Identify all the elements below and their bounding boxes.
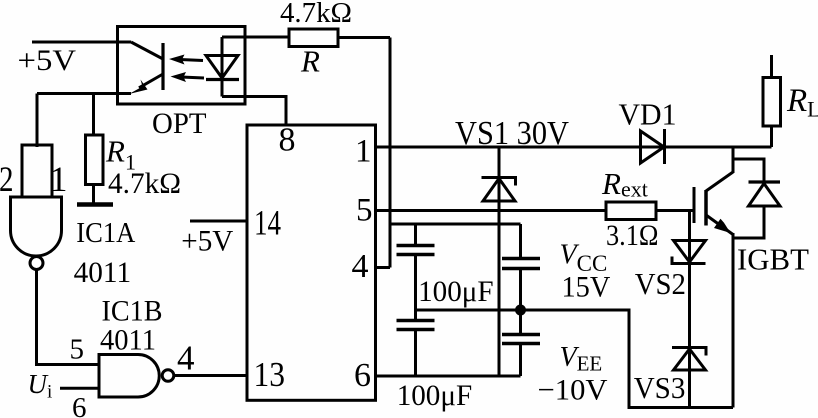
wire R to vertical bus: [338, 36, 390, 39]
zener VS1 cathode bar: [482, 178, 516, 186]
wire pin 5 rail to Rext: [375, 209, 606, 212]
svg-text:5: 5: [356, 193, 373, 229]
capacitor C2 100uF plates: [397, 319, 435, 322]
wire cap branch 1 bottom: [414, 330, 417, 377]
wire RL to rail: [770, 126, 773, 147]
wire LED anode to resistor R: [222, 36, 289, 39]
light arrow lower: [181, 77, 204, 78]
junction dot: [515, 305, 526, 316]
svg-text:2: 2: [0, 159, 14, 199]
IGBT body bar: [704, 190, 708, 226]
zener VS3 cathode bar: [672, 348, 706, 356]
zener VS2 cathode bar: [672, 257, 706, 264]
LED cathode bar: [206, 78, 239, 81]
resistor Rext 3.1ohm: [606, 202, 656, 220]
svg-text:4.7kΩ: 4.7kΩ: [108, 167, 181, 200]
capacitor branch 2 upper wire: [519, 224, 522, 259]
NAND gate IC1B body: [99, 355, 159, 398]
wire LED cathode to pin 8: [222, 97, 286, 126]
NAND gate IC1A bubble: [30, 257, 43, 270]
NAND gate IC1A body: [11, 197, 62, 256]
zener VS1 branch vertical: [498, 147, 501, 376]
wire node to R1: [92, 94, 95, 136]
phototransistor emitter with arrow: [139, 74, 163, 88]
svg-text:5: 5: [70, 334, 85, 366]
svg-text:RL: RL: [786, 83, 818, 122]
LED of OPT: vertical wire: [221, 37, 224, 97]
svg-text:4.7kΩ: 4.7kΩ: [280, 0, 352, 29]
capacitor C4 plates: [502, 333, 540, 336]
wire +5V supply to optocoupler: [32, 41, 131, 44]
resistor R 4.7k: [289, 29, 338, 47]
wire pin 4: [375, 266, 390, 269]
wire vertical bus to pin 4: [389, 38, 392, 268]
light arrow upper (LED to transistor): [180, 60, 203, 61]
ground: [77, 202, 113, 207]
capacitor C1 100uF plates: [397, 244, 435, 247]
zener VS2 triangle: [674, 241, 706, 263]
wire between caps branch 2: [519, 269, 522, 335]
freewheel diode triangle: [749, 184, 781, 207]
wire Rext to gate: [656, 209, 694, 212]
wire cap top line: [390, 223, 521, 226]
wire freewheel diode to emitter: [733, 206, 764, 238]
svg-text:13: 13: [254, 355, 286, 394]
svg-text:Ui: Ui: [28, 369, 53, 403]
zener VS2 branch vertical: [688, 211, 691, 408]
phototransistor in OPT: collector diagonal: [131, 42, 163, 59]
svg-text:VD1: VD1: [619, 97, 677, 132]
svg-text:14: 14: [254, 203, 281, 243]
wire down to gate IC1A input: [36, 94, 39, 148]
svg-text:VS2: VS2: [635, 266, 686, 301]
svg-text:8: 8: [279, 122, 296, 159]
svg-text:4: 4: [177, 339, 195, 378]
wire pin 14 stub +5V: [190, 220, 247, 223]
NAND gate IC1B bubble: [162, 370, 174, 382]
resistor R1: [86, 135, 104, 185]
svg-text:+5V: +5V: [181, 224, 233, 257]
svg-text:VS1 30V: VS1 30V: [455, 115, 569, 152]
zener VS1 triangle: [483, 179, 515, 202]
wire IC1A output down: [37, 270, 100, 365]
svg-text:1: 1: [355, 134, 372, 170]
wire IC1B output to pin 13: [174, 374, 247, 377]
svg-text:6: 6: [72, 392, 87, 418]
opto-coupler box OPT: [118, 27, 246, 105]
phototransistor bar: [161, 43, 164, 90]
wire collector branch: [732, 147, 735, 173]
svg-text:100μF: 100μF: [397, 379, 473, 412]
wire between caps branch 1: [414, 255, 417, 321]
svg-text:1: 1: [50, 159, 68, 199]
driver IC box: [247, 125, 376, 400]
NAND gate IC1A input box: [22, 145, 52, 197]
svg-text:4: 4: [352, 248, 369, 285]
wire to freewheel diode branch: [733, 159, 764, 182]
svg-text:VEE: VEE: [560, 342, 603, 376]
svg-text:R: R: [300, 44, 320, 79]
wire R1 to ground: [92, 185, 95, 204]
IGBT emitter diagonal with arrow: [706, 215, 733, 235]
svg-text:100μF: 100μF: [418, 275, 494, 308]
wire mid supply rail: [416, 310, 734, 408]
svg-text:OPT: OPT: [152, 107, 207, 140]
wire cap branch 2 bottom: [519, 344, 522, 377]
svg-text:4011: 4011: [74, 256, 132, 289]
svg-text:Rext: Rext: [601, 166, 648, 202]
svg-text:VS3: VS3: [634, 370, 686, 405]
svg-text:6: 6: [354, 357, 371, 394]
svg-text:15V: 15V: [562, 271, 611, 304]
svg-text:IC1A: IC1A: [76, 217, 135, 249]
svg-text:+5V: +5V: [18, 44, 77, 77]
resistor RL: [763, 78, 781, 127]
wire pin 6 bottom rail: [375, 375, 521, 378]
diode VD1: [641, 131, 665, 163]
capacitor C3 plates: [502, 257, 540, 260]
svg-text:IGBT: IGBT: [737, 242, 809, 277]
wire emitter to node, left: [37, 92, 131, 95]
wire Ui input pin 6: [60, 387, 99, 390]
resistor RL top stub: [770, 55, 773, 78]
LED triangle: [206, 56, 238, 79]
IGBT gate bar: [693, 187, 696, 223]
wire pin 1 rail to VD1 and RL: [375, 146, 772, 149]
freewheel diode cathode bar: [749, 180, 781, 183]
zener VS3 triangle: [674, 349, 706, 370]
wire emitter down: [732, 233, 735, 408]
capacitor branch 1 upper wire: [414, 224, 417, 246]
IGBT collector diagonal: [706, 172, 733, 191]
svg-text:3.1Ω: 3.1Ω: [606, 219, 659, 252]
svg-text:−10V: −10V: [538, 374, 608, 407]
svg-text:4011: 4011: [100, 324, 156, 357]
